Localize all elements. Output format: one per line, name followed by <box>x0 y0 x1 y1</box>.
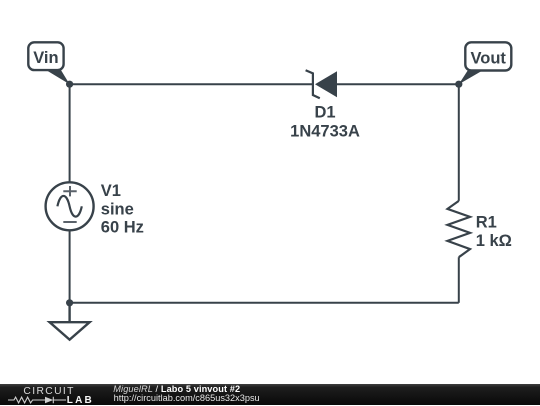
wire left rail upper <box>69 84 71 182</box>
svg-text:60 Hz: 60 Hz <box>101 218 144 236</box>
voltage source V1 circle <box>46 182 94 230</box>
circuitlab logo glyph (resistor + diode) <box>8 396 66 404</box>
V1 sine wave <box>57 196 81 217</box>
wire left rail lower <box>69 230 71 302</box>
footer url line <box>114 393 260 403</box>
wire right rail upper <box>458 84 460 201</box>
resistor R1 zigzag <box>448 201 471 257</box>
circuitlab logo text CIRCUIT <box>23 386 74 397</box>
svg-text:V1: V1 <box>101 182 121 200</box>
net label Vin <box>28 42 69 84</box>
footer title line <box>113 384 240 394</box>
svg-text:D1: D1 <box>314 104 335 122</box>
wire right rail lower <box>458 257 460 303</box>
footer bar <box>0 384 540 406</box>
svg-text:sine: sine <box>101 200 134 218</box>
zener diode D1 cathode bar with bent ends <box>306 70 320 98</box>
net label Vout <box>459 42 512 84</box>
V1 minus sign <box>63 221 76 223</box>
svg-text:Vout: Vout <box>470 50 506 68</box>
zener diode D1 triangle (anode) <box>315 71 337 97</box>
svg-text:1 kΩ: 1 kΩ <box>476 232 512 250</box>
V1 plus sign <box>63 186 76 196</box>
node Vout junction dot <box>455 81 462 88</box>
ground symbol <box>50 303 90 340</box>
node Vin junction dot <box>66 81 73 88</box>
wire top-left to zener cathode <box>70 83 313 85</box>
svg-text:Vin: Vin <box>33 49 58 67</box>
svg-text:1N4733A: 1N4733A <box>290 122 360 140</box>
circuitlab logo LAB <box>67 396 94 405</box>
node ground junction dot <box>66 299 73 306</box>
wire zener anode to Vout node <box>337 83 459 85</box>
wire bottom rail <box>70 302 459 304</box>
svg-text:R1: R1 <box>476 213 497 231</box>
